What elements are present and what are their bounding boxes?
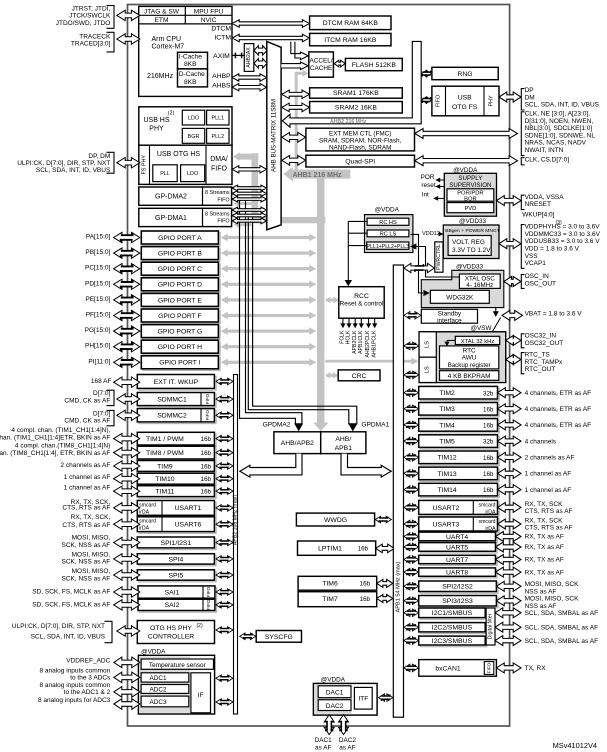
svg-text:VDDPHYHS = 3.0 to 3.6V: VDDPHYHS = 3.0 to 3.6V <box>525 224 601 231</box>
svg-text:GPIO PORT F: GPIO PORT F <box>158 313 202 320</box>
svg-text:ITF: ITF <box>358 696 368 703</box>
svg-text:RX, TX as AF: RX, TX as AF <box>525 544 564 551</box>
svg-text:SDMMC1: SDMMC1 <box>157 396 187 403</box>
pin 168 AF arrow <box>114 377 140 387</box>
block SPI5 <box>139 572 216 582</box>
svg-text:reset: reset <box>421 182 435 189</box>
svg-text:OSC_IN: OSC_IN <box>525 273 550 280</box>
svg-text:VDDUSB33 = 3.0 to 3.6 V: VDDUSB33 = 3.0 to 3.6 V <box>525 238 601 245</box>
svg-text:I2C1/SMBUS: I2C1/SMBUS <box>432 610 473 617</box>
wire gray arrow into GP-DMA1 <box>240 223 252 226</box>
svg-text:VCAP1: VCAP1 <box>525 260 547 267</box>
svg-text:SAI1: SAI1 <box>165 589 180 596</box>
block D-Cache 8KB <box>178 69 208 87</box>
svg-text:TIM7: TIM7 <box>322 596 338 603</box>
svg-text:ADC1: ADC1 <box>149 675 166 682</box>
svg-text:smcard: smcard <box>478 519 495 525</box>
block LS driver 2 <box>419 357 436 382</box>
svg-text:PA[15:0]: PA[15:0] <box>86 234 111 241</box>
svg-text:DTCM RAM 64KB: DTCM RAM 64KB <box>323 20 379 27</box>
svg-text:OSC_OUT: OSC_OUT <box>525 281 556 288</box>
chip outline border <box>128 5 510 727</box>
svg-text:SDMMC2: SDMMC2 <box>157 413 187 420</box>
svg-text:LDO: LDO <box>187 171 198 177</box>
svg-text:to the 3 ADCs: to the 3 ADCs <box>70 674 111 681</box>
svg-text:TX, RX: TX, RX <box>525 665 547 672</box>
svg-text:ADC2: ADC2 <box>149 687 166 694</box>
svg-text:16b: 16b <box>201 436 212 443</box>
svg-text:Digital filter: Digital filter <box>488 613 494 639</box>
pin PF arrow <box>114 310 140 320</box>
wire gray arrow to RTC backup domain <box>325 360 412 363</box>
block WWDG <box>296 513 374 526</box>
block CRC <box>338 370 380 381</box>
svg-text:PHY: PHY <box>489 95 495 106</box>
block XTAL OSC 4-16MHz <box>459 274 500 288</box>
svg-text:interface: interface <box>437 317 462 324</box>
svg-text:RX, TX, SCK: RX, TX, SCK <box>525 517 563 524</box>
block USART1 <box>139 502 216 517</box>
svg-text:CRC: CRC <box>352 373 367 380</box>
block SUPPLY SUPERVISION <box>444 173 496 216</box>
svg-text:VBAT = 1.8 to 3.6 V: VBAT = 1.8 to 3.6 V <box>525 311 583 318</box>
svg-text:DAC2: DAC2 <box>339 737 356 744</box>
svg-text:MOSI, MISO,: MOSI, MISO, <box>72 551 111 558</box>
svg-text:LDO: LDO <box>188 116 199 122</box>
wire matrix to SRAM2 <box>282 103 310 112</box>
svg-text:SCL, SDA, SMBAL as AF: SCL, SDA, SMBAL as AF <box>525 638 598 645</box>
svg-text:3.3V TO 1.2V: 3.3V TO 1.2V <box>452 247 491 254</box>
wire XTAL32 to RTC <box>447 339 455 341</box>
svg-text:1 channel as AF: 1 channel as AF <box>64 474 111 481</box>
wire RC group to RCC <box>348 220 367 222</box>
svg-text:SPI2/I2S2: SPI2/I2S2 <box>442 584 473 591</box>
svg-text:168 AF: 168 AF <box>91 378 112 385</box>
svg-text:D[7:0]: D[7:0] <box>93 390 111 397</box>
block UART8 <box>420 570 497 578</box>
svg-text:DP: DP <box>525 87 534 94</box>
svg-text:16b: 16b <box>483 455 494 462</box>
block TIM13 <box>420 469 499 482</box>
svg-text:USART3: USART3 <box>433 522 460 529</box>
wire gray AHB arrow GPIO port D <box>225 283 313 286</box>
wire ITCM branch to ACCEL/CACHE <box>291 42 308 60</box>
block GPIO PORT B <box>143 248 220 261</box>
svg-text:16b: 16b <box>201 489 212 496</box>
pin TIM2 arrow <box>498 388 522 398</box>
svg-text:EXT MEM CTL (FMC): EXT MEM CTL (FMC) <box>329 131 391 138</box>
block BBgen + POWER MNGT <box>443 225 499 259</box>
block TIM11 <box>139 487 216 498</box>
wire GP-DMA1 to matrix arrows <box>232 207 267 213</box>
block RC HS <box>367 218 409 225</box>
svg-text:FIFO: FIFO <box>217 219 229 225</box>
svg-text:APB2CLK: APB2CLK <box>352 330 358 354</box>
svg-text:16b: 16b <box>483 406 494 413</box>
svg-text:JTCK/SWCLK: JTCK/SWCLK <box>69 13 111 20</box>
svg-text:16b: 16b <box>483 487 494 494</box>
pin VBAT arrow <box>502 310 523 320</box>
svg-text:@VDDA: @VDDA <box>453 167 478 174</box>
block GPIO PORT A <box>143 233 220 246</box>
svg-text:TIM9: TIM9 <box>157 463 173 470</box>
svg-text:USART6: USART6 <box>175 522 202 529</box>
block DTCM RAM 64KB <box>310 16 391 30</box>
block DAC ITF <box>354 687 372 709</box>
svg-text:smcard: smcard <box>139 502 156 508</box>
wire matrix to SRAM1 <box>282 90 310 99</box>
svg-text:RC LS: RC LS <box>380 232 397 238</box>
svg-text:RX, TX, SCK,: RX, TX, SCK, <box>71 514 111 521</box>
svg-text:PHY: PHY <box>149 126 164 133</box>
block EXT MEM CTL (FMC) <box>306 128 415 151</box>
svg-text:USB: USB <box>458 94 472 101</box>
svg-text:bxCAN1: bxCAN1 <box>435 666 461 673</box>
svg-text:16b: 16b <box>483 471 494 478</box>
svg-text:RTC_OUT: RTC_OUT <box>525 366 556 373</box>
svg-text:DAC2: DAC2 <box>326 703 344 710</box>
svg-text:TIM12: TIM12 <box>437 455 456 462</box>
block USB HS PHY <box>139 107 232 145</box>
pin RTC arrow <box>506 355 521 365</box>
pin PI arrow <box>114 357 140 367</box>
svg-text:NSS as AF: NSS as AF <box>525 603 557 610</box>
svg-text:Temperature sensor: Temperature sensor <box>149 662 207 669</box>
block DAC2 <box>318 700 351 711</box>
svg-text:DAC1: DAC1 <box>326 689 344 696</box>
svg-text:NRESET: NRESET <box>525 201 551 208</box>
pin PB arrow <box>114 248 140 258</box>
wire matrix to Quad-SPI <box>282 155 306 165</box>
block Quad-SPI <box>306 155 415 167</box>
svg-text:Arm CPU: Arm CPU <box>152 36 182 43</box>
svg-text:NWAIT, INTN: NWAIT, INTN <box>525 147 564 154</box>
block GP-DMA2 <box>139 187 232 205</box>
svg-text:as AF: as AF <box>315 744 331 751</box>
pin TIM13 arrow <box>498 468 522 478</box>
svg-text:irDA: irDA <box>485 526 496 532</box>
svg-text:NAND-Flash, SDRAM: NAND-Flash, SDRAM <box>329 144 392 151</box>
svg-text:irDA: irDA <box>485 509 496 515</box>
svg-text:Int: Int <box>422 191 429 198</box>
svg-text:8KB: 8KB <box>184 79 197 86</box>
block SDMMC2 <box>139 410 216 423</box>
svg-text:@VDDA: @VDDA <box>375 207 400 214</box>
svg-text:UART8: UART8 <box>446 570 468 577</box>
block ADC complex <box>138 655 214 714</box>
svg-text:8 analog inputs common: 8 analog inputs common <box>39 682 110 689</box>
svg-text:16b: 16b <box>201 476 212 483</box>
svg-text:ETM: ETM <box>155 17 169 24</box>
svg-text:SCK, NSS as AF: SCK, NSS as AF <box>62 542 111 549</box>
block Arm CPU Cortex-M7 <box>139 6 232 96</box>
svg-text:DP, DM: DP, DM <box>88 153 110 160</box>
svg-text:to the ADC1 & 2: to the ADC1 & 2 <box>64 689 111 696</box>
pin OSC32 arrow <box>506 335 521 345</box>
pin TIM14 arrow <box>498 485 522 495</box>
svg-text:D-Cache: D-Cache <box>179 71 205 78</box>
block ADC IF <box>191 673 211 713</box>
svg-text:GPDMA1: GPDMA1 <box>361 422 389 429</box>
svg-text:PLL2: PLL2 <box>212 134 225 140</box>
block RTC backup domain <box>419 332 506 383</box>
wire AHB2AX to matrix arrows <box>254 46 267 56</box>
block Digital filter <box>486 608 495 645</box>
block RCC <box>339 287 384 319</box>
wire USB OTG FS to AHB2 pipe <box>421 97 431 104</box>
wire POR output <box>437 179 444 181</box>
wire Int output <box>435 197 444 199</box>
svg-text:RC HS: RC HS <box>379 220 397 226</box>
svg-text:NSS as AF: NSS as AF <box>525 588 557 595</box>
svg-text:RTC_TAMPx: RTC_TAMPx <box>525 359 563 366</box>
svg-text:GPIO PORT G: GPIO PORT G <box>158 329 203 336</box>
svg-text:PH[15:0]: PH[15:0] <box>85 343 110 350</box>
bus APB2 108 MHz rail <box>234 375 238 715</box>
svg-text:SD, SCK, FS, MCLK as AF: SD, SCK, FS, MCLK as AF <box>32 601 110 608</box>
block ADC1 <box>141 673 189 682</box>
svg-text:as AF: as AF <box>339 744 355 751</box>
svg-text:MOSI, MISO, SCK: MOSI, MISO, SCK <box>525 581 579 588</box>
svg-text:SCL, SDA, INT, ID, VBUS: SCL, SDA, INT, ID, VBUS <box>36 167 111 174</box>
svg-text:TIM13: TIM13 <box>437 471 456 478</box>
svg-text:EXT IT. WKUP: EXT IT. WKUP <box>154 379 199 386</box>
svg-text:FIFO: FIFO <box>436 95 442 107</box>
svg-text:PLL1+PLL2+PLL3: PLL1+PLL2+PLL3 <box>367 244 410 250</box>
svg-text:WDG32K: WDG32K <box>446 294 474 301</box>
block AHB2AX bridge <box>244 44 254 72</box>
wire APB1 to Standby interface <box>404 312 421 320</box>
pin TIM3 arrow <box>498 404 522 414</box>
pin JTAG arrow <box>117 10 140 20</box>
block GPIO PORT F <box>143 311 220 324</box>
block PLL1+PLL2+PLL3 <box>367 242 409 249</box>
pin FMC arrow <box>415 129 518 139</box>
svg-text:AHB2AX: AHB2AX <box>246 47 252 68</box>
block TIM6 <box>298 576 377 590</box>
wire GPDMA1 bus pipe to AHB/APB1 <box>248 218 356 424</box>
block Standby interface <box>421 309 477 323</box>
svg-text:RCC: RCC <box>354 293 369 300</box>
block TIM14 <box>420 485 499 498</box>
svg-text:TIM6: TIM6 <box>322 581 338 588</box>
svg-text:4 compl. chan. (TIM1_CH1[1:4]N: 4 compl. chan. (TIM1_CH1[1:4]N), <box>11 427 110 434</box>
block SAI1 <box>140 588 217 600</box>
wire bridge to APB2 rail arrow <box>240 454 302 478</box>
svg-text:BGR: BGR <box>188 134 200 140</box>
svg-text:RTC: RTC <box>463 348 476 355</box>
block FLASH 512KB <box>345 58 402 70</box>
wire GP-DMA2 to matrix arrows <box>232 185 267 191</box>
block TIM3 <box>420 404 499 417</box>
svg-text:UART5: UART5 <box>446 544 468 551</box>
pin TIM12 arrow <box>498 452 522 462</box>
svg-text:SRAM2 16KB: SRAM2 16KB <box>335 105 377 112</box>
svg-text:ULPI:CK, D[7:0], DIR, STP, NXT: ULPI:CK, D[7:0], DIR, STP, NXT <box>12 623 105 630</box>
svg-text:16b: 16b <box>360 581 371 588</box>
block GPIO PORT I <box>143 358 220 371</box>
block GPIO PORT H <box>143 342 220 355</box>
svg-text:2 channels as AF: 2 channels as AF <box>60 462 110 469</box>
svg-text:smcard: smcard <box>139 519 156 525</box>
svg-text:TIM10: TIM10 <box>155 476 174 483</box>
svg-text:SD, SCK, FS, MCLK as AF: SD, SCK, FS, MCLK as AF <box>32 589 110 596</box>
wire gray AHB1 vertical trunk <box>317 174 324 423</box>
block SYSCFG <box>256 631 301 643</box>
svg-text:(2): (2) <box>197 623 203 629</box>
svg-text:RX, TX, SCK: RX, TX, SCK <box>525 501 563 508</box>
wire matrix to ACCEL/CACHE <box>281 62 308 70</box>
bus AHB BUS-MATRIX 11S8M <box>267 42 281 230</box>
svg-text:OTG HS PHY: OTG HS PHY <box>150 625 192 632</box>
svg-text:PE[15:0]: PE[15:0] <box>85 296 110 303</box>
wire gray AHB arrow GPIO port A <box>225 236 313 239</box>
block DAC1 <box>318 686 351 698</box>
svg-text:GPIO PORT H: GPIO PORT H <box>158 344 202 351</box>
svg-text:APB1CLK: APB1CLK <box>358 330 364 354</box>
svg-text:DM: DM <box>525 94 535 101</box>
pin DAC1 output arrow <box>324 715 334 735</box>
svg-text:SUPPLY: SUPPLY <box>458 175 482 182</box>
wire AHB2 216 MHz bus pipe <box>282 41 421 127</box>
svg-text:TIM11: TIM11 <box>156 489 175 496</box>
svg-text:IF: IF <box>198 692 204 699</box>
pin PE arrow <box>114 295 140 305</box>
svg-text:APB1: APB1 <box>335 445 353 452</box>
svg-text:PG[15:0]: PG[15:0] <box>85 327 111 334</box>
svg-text:OSC32_IN: OSC32_IN <box>525 333 557 340</box>
svg-text:MOSI, MISO, SCK: MOSI, MISO, SCK <box>525 596 579 603</box>
svg-text:4- 16MHz: 4- 16MHz <box>466 282 493 289</box>
block ITCM RAM 16KB <box>310 33 391 45</box>
block SPI1/I2S1 <box>139 539 216 550</box>
svg-text:AHB2 216 MHz: AHB2 216 MHz <box>330 119 367 125</box>
svg-text:Backup register: Backup register <box>448 362 491 369</box>
svg-text:D[7:0]: D[7:0] <box>93 410 111 417</box>
block GPIO PORT G <box>143 326 220 339</box>
svg-text:SCL, SDA, INT, ID, VBUS: SCL, SDA, INT, ID, VBUS <box>525 102 600 109</box>
svg-text:GPIO PORT I: GPIO PORT I <box>159 360 200 367</box>
svg-text:HCLK: HCLK <box>346 330 352 344</box>
svg-text:CMD, CK as AF: CMD, CK as AF <box>64 398 110 405</box>
svg-text:USB OTG HS: USB OTG HS <box>157 151 201 158</box>
block BGR <box>182 128 204 143</box>
block TIM8 / PWM <box>139 448 216 461</box>
svg-text:ICTM: ICTM <box>214 34 231 41</box>
wire GPDMA2 bus pipe to AHB/APB2 <box>240 200 302 424</box>
svg-text:OSC32_OUT: OSC32_OUT <box>525 340 564 347</box>
svg-text:GPIO PORT B: GPIO PORT B <box>158 251 202 258</box>
svg-text:VDDA, VSSA: VDDA, VSSA <box>525 194 565 201</box>
svg-text:NBL[3:0], SDCLKE[1:0]: NBL[3:0], SDCLKE[1:0] <box>525 125 593 132</box>
svg-text:OTG FS: OTG FS <box>452 104 478 111</box>
svg-text:ADC3: ADC3 <box>149 699 166 706</box>
svg-text:AHB2PCLK: AHB2PCLK <box>365 330 371 358</box>
svg-text:irDA: irDA <box>139 509 150 515</box>
block USART2 <box>420 502 499 516</box>
pin TRACE arrow <box>117 34 140 44</box>
svg-text:FLASH 512KB: FLASH 512KB <box>352 62 397 69</box>
svg-text:LPTIM1: LPTIM1 <box>318 546 342 553</box>
svg-text:NVIC: NVIC <box>201 17 217 24</box>
block TIM12 <box>420 453 499 466</box>
block TIM10 <box>139 475 216 486</box>
svg-text:BOR: BOR <box>464 196 477 202</box>
svg-text:D[31:0], NOEN, NWEN,: D[31:0], NOEN, NWEN, <box>525 118 594 125</box>
wire gray AHB arrow GPIO port C <box>225 267 313 270</box>
svg-text:FIFO: FIFO <box>206 599 211 610</box>
svg-text:216MHz: 216MHz <box>147 73 174 80</box>
pin USB OTG FS arrow <box>499 92 521 102</box>
svg-text:POR: POR <box>421 174 435 181</box>
block ADC3 <box>141 696 189 707</box>
wire ACCEL to FLASH arrow <box>334 60 345 67</box>
svg-text:GPIO PORT A: GPIO PORT A <box>158 235 202 242</box>
svg-text:CONTROLLER: CONTROLLER <box>148 633 195 640</box>
svg-text:Quad-SPI: Quad-SPI <box>345 158 375 165</box>
block I2C2/SMBUS <box>420 624 487 633</box>
wire bridge to APB1 bar arrow <box>341 454 391 478</box>
svg-text:I2C3/SMBUS: I2C3/SMBUS <box>432 638 473 645</box>
svg-text:JTRST, JTDI,: JTRST, JTDI, <box>72 6 111 13</box>
block PVD <box>447 203 494 213</box>
wire gray AHB arrow GPIO port E <box>225 298 313 301</box>
svg-text:TIM14: TIM14 <box>437 487 456 494</box>
block RC LS <box>367 230 409 237</box>
block VOLT. REG <box>448 236 491 256</box>
svg-text:DMA/: DMA/ <box>210 156 228 163</box>
svg-text:4 channels, ETR as AF: 4 channels, ETR as AF <box>525 422 592 429</box>
svg-text:USART1: USART1 <box>175 505 202 512</box>
svg-text:TIM5: TIM5 <box>439 439 455 446</box>
wire RCC clock outputs <box>342 318 344 324</box>
svg-text:PC[15:0]: PC[15:0] <box>85 265 110 272</box>
svg-text:SUPERVISION: SUPERVISION <box>449 182 491 189</box>
pin VOLT REG arrow <box>499 239 521 249</box>
pin Quad-SPI arrow <box>415 156 518 166</box>
svg-text:VOLT. REG: VOLT. REG <box>452 239 485 246</box>
svg-text:AXIM: AXIM <box>213 53 230 60</box>
wire gray AHB arrow GPIO port G <box>225 330 313 333</box>
wire gray AHB arrow GPIO port F <box>225 314 313 317</box>
svg-text:TRACED[3:0]: TRACED[3:0] <box>71 41 111 48</box>
block USART3 <box>420 519 499 533</box>
block I-Cache 8KB <box>178 52 208 69</box>
wire gray AHB arrow GPIO port I <box>225 361 313 364</box>
block POR/PDR BOR <box>447 189 494 201</box>
wire gray arrow trunk to RCC <box>326 299 338 302</box>
wire RC LS to WDG32K <box>411 234 424 293</box>
block SPI4 <box>139 555 216 565</box>
block Temperature sensor <box>141 659 213 669</box>
svg-text:LS: LS <box>425 366 431 373</box>
svg-text:TIM2: TIM2 <box>439 390 455 397</box>
svg-text:irDA: irDA <box>139 526 150 532</box>
svg-text:16b: 16b <box>483 423 494 430</box>
svg-text:Reset & control: Reset & control <box>340 301 384 308</box>
block EXT IT. WKUP <box>139 376 216 390</box>
block TIM5 <box>420 437 499 450</box>
svg-text:Cortex-M7: Cortex-M7 <box>152 44 185 51</box>
pin PA arrow <box>114 232 140 242</box>
block I2C1/SMBUS <box>420 610 487 620</box>
wire AXIM 64-bit link <box>232 54 244 56</box>
block PWRCTRL <box>435 242 443 272</box>
block PLL1 <box>207 110 229 125</box>
wire gray AHB arrow GPIO port B <box>225 252 313 255</box>
svg-text:TIM4: TIM4 <box>439 422 455 429</box>
block SPI2/I2S2 <box>420 583 498 594</box>
